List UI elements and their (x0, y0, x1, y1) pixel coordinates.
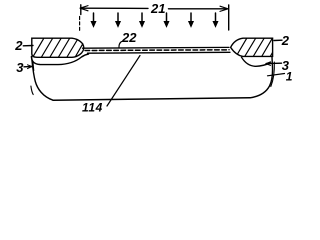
electrode 2 right hatching (238, 39, 273, 57)
svg-text:1: 1 (286, 69, 293, 83)
active layer 22 bottom line (88, 51, 231, 54)
irradiation arrow 4 (164, 13, 169, 27)
leader for 3 right (arrow) (266, 62, 282, 64)
irradiation arrow 2 (116, 13, 121, 27)
electrode 2 right (hatched, tapered left end) outline (231, 38, 273, 56)
svg-text:2: 2 (14, 38, 23, 53)
electrode 2 left (hatched bullet) outline (32, 38, 84, 57)
substrate 1 right corner (250, 57, 273, 98)
leader for 2 left (23, 45, 33, 47)
substrate 1 left edge inner stroke (31, 86, 33, 95)
dimension arrowhead left (80, 6, 88, 11)
svg-text:2: 2 (281, 33, 290, 48)
irradiation arrow 6 (213, 13, 218, 27)
region 3 contour left (under electrode) (31, 54, 88, 65)
active layer 22 top line (83, 46, 230, 49)
leader for 2 right (274, 39, 282, 41)
electrode 2 left hatching (34, 39, 83, 58)
svg-text:21: 21 (150, 1, 165, 16)
leader for 1 right (268, 74, 285, 76)
substrate 1 right corner second stroke (271, 62, 275, 87)
svg-text:3: 3 (16, 60, 24, 75)
irradiation arrow 1 (91, 13, 96, 27)
extension tick right (228, 5, 230, 30)
irradiation arrow 3 (140, 13, 145, 27)
dimension line 21 right segment (169, 8, 228, 10)
substrate 1 left edge (32, 57, 53, 100)
svg-text:114: 114 (82, 100, 103, 114)
irradiation arrow 5 (189, 13, 194, 27)
leader for 3 left (arrow) (24, 66, 32, 68)
region 3 contour right (hook under electrode) (242, 57, 271, 66)
extension tick left (solid then dotted) (80, 5, 82, 15)
dimension line 21 left segment (81, 7, 149, 9)
leader for 22 (119, 42, 122, 48)
svg-text:22: 22 (121, 30, 137, 45)
leader for 114 (107, 56, 140, 107)
dimension arrowhead right (220, 6, 228, 11)
substrate 1 bottom line (53, 98, 250, 100)
active layer 22 dashed centre line (85, 49, 229, 52)
